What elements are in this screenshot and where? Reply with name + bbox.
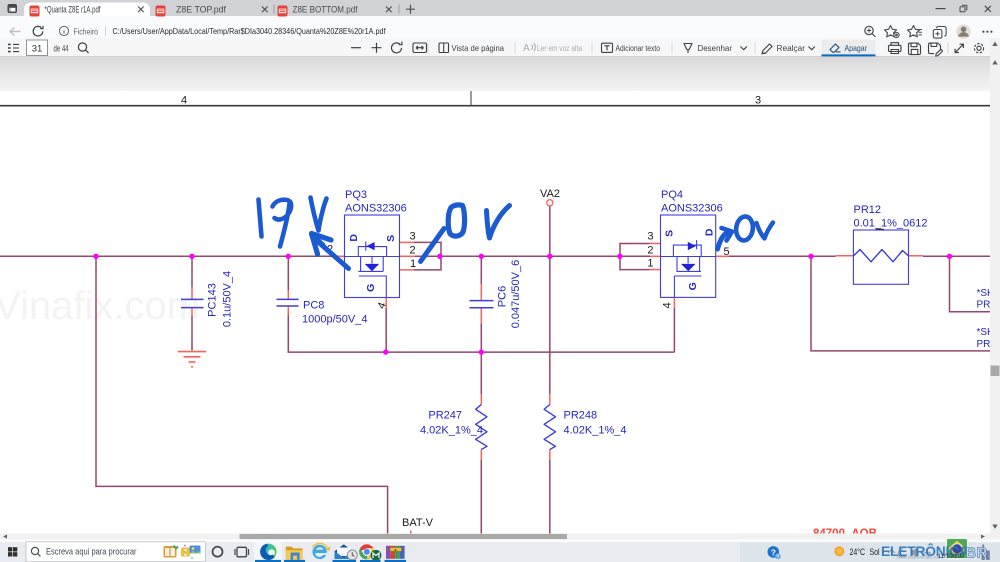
svg-text:AONS32306: AONS32306 <box>345 203 407 215</box>
svg-text:Escreva aqui para procurar: Escreva aqui para procurar <box>46 547 137 557</box>
svg-text:G: G <box>687 282 699 290</box>
svg-text:3: 3 <box>755 95 761 107</box>
svg-text:PR248: PR248 <box>564 410 598 422</box>
svg-text:PQ4: PQ4 <box>661 189 683 201</box>
svg-text:BAT-V: BAT-V <box>402 517 434 529</box>
svg-text:Z8E TOP.pdf: Z8E TOP.pdf <box>176 4 227 14</box>
svg-text:www.eletronicabr.com: www.eletronicabr.com <box>897 554 942 559</box>
svg-text:PC8: PC8 <box>303 300 324 312</box>
svg-text:?: ? <box>776 555 779 561</box>
svg-text:1: 1 <box>410 258 416 270</box>
svg-text:0.1u/50V_4: 0.1u/50V_4 <box>222 271 234 327</box>
svg-text:*Quanta Z8E r1A.pdf: *Quanta Z8E r1A.pdf <box>45 4 101 14</box>
svg-text:3: 3 <box>647 231 653 243</box>
svg-text:PR247: PR247 <box>428 410 462 422</box>
svg-text:4.02K_1%_4: 4.02K_1%_4 <box>420 425 483 437</box>
svg-text:Ficheiro: Ficheiro <box>74 26 99 36</box>
svg-text:PQ3: PQ3 <box>345 189 367 201</box>
svg-text:PC6: PC6 <box>497 286 509 307</box>
svg-text:AONS32306: AONS32306 <box>661 203 723 215</box>
svg-text:4: 4 <box>181 95 187 107</box>
svg-text:0.01_1%_0612: 0.01_1%_0612 <box>854 218 928 230</box>
svg-text:Vista de página: Vista de página <box>452 43 505 53</box>
svg-text:Vinafix.com: Vinafix.com <box>0 284 200 328</box>
svg-text:24°C: 24°C <box>850 547 866 557</box>
svg-text:PR: PR <box>977 300 991 311</box>
svg-text:3: 3 <box>410 231 416 243</box>
svg-text:PR12: PR12 <box>854 204 882 216</box>
svg-text:Adicionar texto: Adicionar texto <box>616 43 661 53</box>
svg-text:Sol: Sol <box>870 547 880 557</box>
svg-text:BR: BR <box>966 544 988 561</box>
svg-text:S: S <box>385 235 397 242</box>
svg-text:PR: PR <box>977 339 991 350</box>
svg-text:de 44: de 44 <box>54 43 69 53</box>
svg-text:Realçar: Realçar <box>777 43 806 53</box>
svg-text:Apagar: Apagar <box>845 43 868 53</box>
svg-text:A: A <box>523 43 530 54</box>
svg-text:4.02K_1%_4: 4.02K_1%_4 <box>564 425 627 437</box>
svg-text:2: 2 <box>647 245 653 257</box>
svg-text:31: 31 <box>32 43 43 54</box>
svg-text:S: S <box>663 230 675 237</box>
svg-text:G: G <box>365 284 377 292</box>
svg-text:C:/Users/User/AppData/Local/Te: C:/Users/User/AppData/Local/Temp/Rar$DIa… <box>113 26 387 36</box>
svg-text:11/10/202: 11/10/202 <box>938 554 965 560</box>
svg-text:D: D <box>348 234 360 242</box>
svg-text:4: 4 <box>662 302 674 308</box>
svg-text:VA2: VA2 <box>540 188 560 200</box>
svg-text:1: 1 <box>647 258 653 270</box>
svg-text:2: 2 <box>410 245 416 257</box>
svg-text:5: 5 <box>724 246 730 258</box>
svg-text:D: D <box>703 228 715 236</box>
svg-text:Z8E BOTTOM.pdf: Z8E BOTTOM.pdf <box>293 4 359 14</box>
svg-text:Desenhar: Desenhar <box>698 43 733 53</box>
svg-text:1000p/50V_4: 1000p/50V_4 <box>302 314 367 326</box>
svg-text:0.047u/50V_6: 0.047u/50V_6 <box>510 260 522 329</box>
svg-text:Ler em voz alta: Ler em voz alta <box>537 43 582 53</box>
svg-text:PC143: PC143 <box>207 283 219 317</box>
